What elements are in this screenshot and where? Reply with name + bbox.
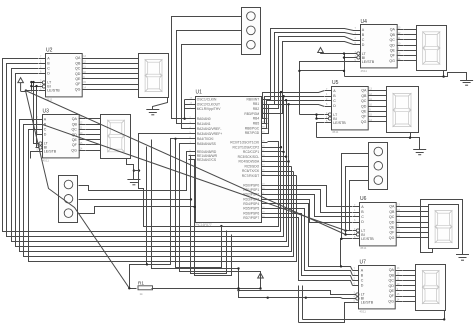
microcontroller U1 PIC16F877 [189, 90, 268, 228]
junction [259, 287, 261, 289]
wire U3 QA to display [86, 118, 101, 120]
wire J1 pin1 to RA0 [172, 17, 242, 119]
svg-text:QE: QE [390, 49, 396, 53]
wire U2 QE to display [89, 78, 139, 80]
wire DS3 common pin [443, 71, 445, 77]
svg-text:QC: QC [72, 128, 78, 132]
wire U6 LE [341, 239, 353, 267]
wire U7 QA to display [403, 270, 416, 272]
wire bus line 3 RC3 / U2 C [12, 69, 287, 242]
svg-text:RD6/PSP6: RD6/PSP6 [243, 211, 259, 215]
junction [282, 95, 284, 97]
svg-text:QE: QE [75, 77, 81, 81]
junction [237, 289, 239, 291]
wire U5 QD to display [375, 106, 387, 108]
svg-text:QC: QC [75, 67, 81, 71]
svg-text:OSC2/CLKOUT: OSC2/CLKOUT [197, 102, 220, 106]
svg-text:D: D [362, 43, 365, 47]
svg-text:QD: QD [390, 43, 396, 47]
wire U2 QG to display [89, 89, 139, 91]
wire U5 QB to display [375, 95, 387, 97]
svg-text:RD4/PSP4: RD4/PSP4 [243, 202, 259, 206]
wire U4 LT net [321, 53, 354, 55]
junction [285, 99, 287, 101]
wire U5 LE [317, 123, 325, 138]
wire U2 LT to U3 LT [34, 83, 40, 144]
wire U3 QD to display [86, 134, 101, 136]
wire U6 QG to display [403, 237, 429, 239]
wire RD1 to U6 B [268, 190, 353, 213]
svg-text:QC: QC [389, 215, 395, 219]
svg-text:RA3/AN3/VREF+: RA3/AN3/VREF+ [197, 132, 222, 136]
wire RD6 to U7 C [268, 214, 353, 281]
wire mesh vertical b [152, 140, 239, 269]
svg-text:QB: QB [72, 122, 78, 126]
wire U2 LE [26, 90, 39, 92]
svg-text:QB: QB [75, 61, 81, 65]
wire RB0 to U4 A [262, 29, 361, 100]
ground below DS2 [127, 180, 140, 185]
wire diagonal to R1 node [26, 91, 130, 289]
wire U5 BI [317, 118, 325, 120]
wire J3 pin1 [342, 154, 369, 239]
wire RD3 to U6 D [268, 200, 353, 223]
wire U2 QA to display [89, 58, 139, 60]
decoder U6 4511 [353, 196, 403, 250]
svg-text:U3: U3 [43, 109, 50, 115]
wire R1 right [152, 288, 261, 290]
ground near DS3 [460, 81, 473, 86]
junction [194, 206, 196, 208]
svg-text:RC1/T1OSI/CCP2: RC1/T1OSI/CCP2 [232, 145, 259, 149]
svg-text:C: C [47, 67, 50, 71]
wire bus line 4 RC4 / U2 D [16, 74, 289, 247]
junction [267, 297, 269, 299]
svg-text:QF: QF [361, 115, 367, 119]
ground below DS1 [146, 110, 159, 115]
connector J1 [242, 8, 261, 55]
wire U4 QE to display [404, 50, 417, 52]
svg-text:QB: QB [389, 273, 395, 277]
wire U3 QC to display [86, 129, 101, 131]
wire bottom rail [303, 319, 445, 321]
svg-text:U6: U6 [360, 196, 367, 202]
junction at R1 left [128, 287, 130, 289]
svg-text:QD: QD [389, 220, 395, 224]
svg-text:QD: QD [361, 104, 367, 108]
svg-text:QG: QG [388, 299, 394, 303]
wire RD5 to U7 B [268, 209, 353, 276]
wire RB1 to U4 B [262, 33, 361, 105]
svg-text:QE: QE [389, 226, 395, 230]
ground near DS5 [456, 255, 469, 261]
wire bus to U5 C [287, 100, 325, 102]
wire mesh vertical a [146, 147, 148, 265]
wire U7 QB to display [403, 275, 416, 277]
wire mesh S0 [176, 139, 222, 268]
svg-text:RD0/PSP0: RD0/PSP0 [243, 183, 259, 187]
svg-text:RC7/RX/DT: RC7/RX/DT [242, 174, 259, 178]
wire U3 QF to display [86, 144, 101, 146]
wire U7 QC to display [403, 280, 416, 282]
svg-text:QE: QE [361, 110, 367, 114]
svg-text:QA: QA [75, 56, 81, 60]
wire U4 QB to display [404, 34, 417, 36]
svg-text:RC3/SCK/SCL: RC3/SCK/SCL [238, 155, 260, 159]
svg-text:QA: QA [72, 117, 78, 121]
wire U5 QC to display [375, 100, 387, 102]
svg-text:4511: 4511 [360, 310, 367, 314]
svg-text:RD7/PSP7: RD7/PSP7 [243, 216, 259, 220]
svg-text:QD: QD [389, 284, 395, 288]
7-segment display DS2 [101, 115, 131, 159]
wire U6 tie [345, 231, 347, 235]
wire bus line 5 RC5 / U3 A [20, 120, 292, 252]
svg-text:RB7/PGD: RB7/PGD [245, 131, 260, 135]
wire U7 QG to display [403, 301, 416, 303]
svg-text:LE/STB: LE/STB [333, 121, 346, 125]
wire U6 QD to display [403, 222, 429, 224]
svg-text:RB4: RB4 [253, 117, 260, 121]
svg-text:C: C [361, 215, 364, 219]
wire J3 pin2 [346, 167, 369, 231]
wire RD7 to U7 D [268, 218, 353, 286]
svg-text:D: D [47, 72, 50, 76]
svg-text:RD5/PSP5: RD5/PSP5 [243, 207, 259, 211]
ground below DS4 [413, 150, 426, 155]
svg-text:QA: QA [389, 268, 395, 272]
junction [282, 151, 284, 153]
svg-text:MCLR/Vpp/THV: MCLR/Vpp/THV [197, 107, 221, 111]
svg-text:RC6/TX/CK: RC6/TX/CK [242, 169, 260, 173]
wire U2 QF to display [89, 84, 139, 86]
svg-text:U5: U5 [332, 80, 339, 86]
wire U2 LT [32, 82, 43, 84]
wire RC4 stub join [268, 161, 289, 163]
wire U6 QE to display [403, 227, 429, 229]
wire G3 branch to RC0 [134, 142, 279, 227]
svg-text:U7: U7 [360, 260, 367, 266]
svg-text:QB: QB [390, 33, 396, 37]
wire U6 LT [346, 230, 353, 232]
wire RC7 stub join [268, 175, 297, 177]
svg-text:R1: R1 [138, 280, 144, 285]
junction [174, 138, 176, 140]
wire RC5 stub join [268, 166, 292, 168]
junction [280, 91, 282, 93]
junction [183, 118, 185, 120]
svg-text:QA: QA [390, 28, 396, 32]
svg-text:RB3/PGM: RB3/PGM [244, 112, 259, 116]
svg-text:QC: QC [361, 99, 367, 103]
svg-text:LE/STB: LE/STB [361, 237, 374, 241]
svg-text:LE/STB: LE/STB [362, 60, 375, 64]
svg-text:U2: U2 [46, 48, 53, 54]
power symbol VCC near R1 [258, 273, 264, 289]
svg-text:QB: QB [361, 94, 367, 98]
wire U2 BI to U3 BI [37, 87, 40, 148]
svg-text:QF: QF [72, 143, 78, 147]
power symbol VCC near U4 [318, 48, 324, 54]
svg-text:LE/STB: LE/STB [44, 150, 57, 154]
connector J3 [369, 143, 388, 190]
wire RB7 to bus row 3 [262, 105, 289, 134]
junction [443, 318, 445, 320]
wire DS5 to ground loop [421, 200, 463, 255]
junction [287, 160, 289, 162]
wire DS4 common pin [410, 133, 412, 138]
junction [305, 297, 307, 299]
svg-text:RA4/T0CKI: RA4/T0CKI [197, 137, 214, 141]
svg-text:D: D [361, 220, 364, 224]
wire U3 QE to display [86, 139, 101, 141]
svg-text:U1: U1 [196, 90, 203, 96]
wire mesh vertical v1 [298, 286, 300, 323]
wire diagonal VCC to U6 BI [26, 91, 346, 235]
svg-text:QG: QG [75, 87, 81, 91]
junction [146, 263, 148, 265]
junction [220, 225, 222, 227]
svg-text:RE2/AN7/CS: RE2/AN7/CS [197, 158, 217, 162]
wire mesh vertical v2 [302, 286, 304, 320]
junction [285, 156, 287, 158]
wire U7 QF to display [403, 296, 416, 298]
wire bus to U5 D [289, 105, 325, 107]
wire U6 QC to display [403, 216, 429, 218]
7-segment display DS1 [139, 54, 169, 98]
wire U4 BI across [300, 70, 345, 72]
svg-text:4511: 4511 [43, 159, 50, 163]
wire RD4 to U7 A [268, 204, 353, 271]
svg-text:RB1: RB1 [253, 102, 260, 106]
wire U6 QF to display [403, 232, 429, 234]
wire LT-BI tie [31, 83, 33, 92]
junction [287, 103, 289, 105]
svg-text:LE/STB: LE/STB [47, 89, 60, 93]
svg-text:RA0/AN0: RA0/AN0 [197, 117, 211, 121]
wire U3 QB to display [86, 124, 101, 126]
decoder U2 4511 [39, 48, 89, 102]
wire J1 pin2 to RA1 [177, 31, 242, 124]
wire J3 pin3 [350, 181, 369, 231]
wire RC6 stub join [268, 171, 294, 173]
svg-text:QA: QA [361, 89, 367, 93]
wire U2 BI [32, 86, 43, 88]
svg-text:QC: QC [390, 38, 396, 42]
junction [190, 198, 192, 200]
wire DS1 to ground [153, 98, 168, 110]
svg-text:4511: 4511 [332, 130, 339, 134]
connector J2 [59, 176, 78, 223]
wire U4 QA to display [404, 29, 417, 31]
svg-text:1k: 1k [140, 292, 144, 296]
wire RB6 to bus row 2 [262, 101, 287, 129]
svg-text:QE: QE [389, 289, 395, 293]
wire OSC2 stub link [185, 104, 189, 106]
svg-text:C: C [362, 38, 365, 42]
svg-text:RA5/AN4/SS: RA5/AN4/SS [197, 142, 217, 146]
wire bus to U5 B [284, 96, 325, 98]
svg-text:RC5/SDO: RC5/SDO [245, 164, 260, 168]
junction [30, 81, 32, 83]
decoder U3 4511 [36, 109, 86, 163]
svg-text:D: D [361, 284, 364, 288]
wire RC2 stub join [268, 151, 284, 153]
svg-text:QA: QA [389, 205, 395, 209]
wire bus to U5 A [281, 91, 325, 93]
wire MCLR stub link [185, 108, 189, 110]
svg-text:QD: QD [75, 72, 81, 76]
svg-text:D: D [333, 104, 336, 108]
wire RB2 to U4 C [262, 37, 361, 109]
svg-text:C: C [361, 279, 364, 283]
wire to ground G5 [317, 138, 420, 150]
decoder U4 4511 [354, 19, 404, 73]
wire U3 QG to display [86, 150, 101, 152]
junction [138, 169, 140, 171]
wire U6 QB to display [403, 211, 429, 213]
wire RA4 to R1 [130, 139, 189, 289]
svg-text:4511: 4511 [360, 246, 367, 250]
wire U7 LE [299, 303, 353, 323]
svg-text:QE: QE [72, 138, 78, 142]
wire RA3 to DS2 ground branch [139, 134, 189, 171]
wire DS3 to ground [345, 73, 467, 81]
wire U6 QA to display [403, 206, 429, 208]
wire U7 QE to display [403, 290, 416, 292]
svg-text:D: D [44, 133, 47, 137]
svg-text:RB0/INT: RB0/INT [247, 97, 260, 101]
svg-text:OSC1/CLKIN: OSC1/CLKIN [197, 97, 217, 101]
wire RA5 to VCC node [180, 144, 261, 289]
svg-text:RC0/T1OSO/T1CKI: RC0/T1OSO/T1CKI [230, 141, 259, 145]
wire U4 LE down to U5 LT [300, 62, 354, 115]
decoder U7 4511 [353, 260, 403, 314]
wire U2 QD to display [89, 73, 139, 75]
wire RD0 to U6 A [268, 186, 353, 207]
wire RC3 stub join [268, 156, 287, 158]
wire U5 QA to display [375, 90, 387, 92]
svg-text:RB5: RB5 [253, 122, 260, 126]
junction [280, 146, 282, 148]
wire U2 QB to display [89, 63, 139, 65]
wire U2 QC to display [89, 68, 139, 70]
svg-text:4511: 4511 [361, 69, 368, 73]
svg-text:QF: QF [75, 82, 81, 86]
wire U5 LT-BI tie [316, 115, 318, 119]
wire mesh S2 [195, 207, 232, 276]
7-segment display DS5 [429, 205, 459, 249]
power symbol VCC near U2 [18, 78, 24, 92]
wire U3 LE [31, 152, 36, 159]
svg-text:C: C [333, 99, 336, 103]
wire vertical to R1 node [238, 269, 240, 289]
wire U4 QC to display [404, 39, 417, 41]
wire U7 BI from R1 node [239, 289, 353, 299]
wire RB3 to U4 D [262, 42, 361, 114]
wire arrow base [21, 91, 26, 93]
svg-text:RA1/AN1: RA1/AN1 [197, 122, 211, 126]
7-segment display DS3 [417, 26, 447, 71]
wire J1 pin3 to RA2 [182, 45, 242, 129]
wire RD2 to U6 C [268, 195, 353, 217]
svg-text:LE/STB: LE/STB [361, 301, 374, 305]
wire RB5 to bus row 1 [262, 97, 284, 124]
wire MCLR OSC vertical [184, 100, 186, 119]
wire U5 QG to display [375, 121, 387, 123]
svg-text:QG: QG [389, 236, 395, 240]
svg-text:RC4/SDI/SDA: RC4/SDI/SDA [238, 160, 260, 164]
wire mesh S1 [191, 200, 227, 274]
wire bus line 7 RC7 / U3 C [29, 130, 297, 262]
svg-text:QC: QC [389, 279, 395, 283]
svg-text:C: C [44, 128, 47, 132]
wire RC1 stub join [268, 147, 281, 149]
junction [25, 89, 27, 91]
wire J2 pin3 to RE2 [79, 160, 195, 214]
wire U4 BI tie down [344, 54, 346, 77]
svg-text:RC2/CCP1: RC2/CCP1 [243, 150, 259, 154]
svg-text:RB6/PGC: RB6/PGC [245, 126, 260, 130]
wire U7 LT [239, 291, 353, 295]
wire U5 LT net [300, 114, 325, 116]
wire U6 BI [346, 234, 353, 236]
wire U7 QD to display [403, 285, 416, 287]
junction [133, 169, 135, 171]
7-segment display DS6 [416, 265, 446, 311]
junction [340, 265, 342, 267]
svg-text:QF: QF [389, 294, 395, 298]
wire bus line 6 RC6 / U3 B [24, 125, 294, 257]
wire DS6 common pin [444, 311, 446, 320]
wire U4 BI [345, 57, 354, 59]
wire bus line 1 RC1 / U2 A [3, 59, 281, 232]
svg-text:QG: QG [361, 120, 367, 124]
svg-text:QF: QF [390, 54, 396, 58]
svg-text:RB2: RB2 [253, 107, 260, 111]
7-segment display DS4 [387, 87, 419, 133]
svg-text:QF: QF [389, 231, 395, 235]
wire J2 pin2 to RE1 [79, 156, 191, 200]
svg-text:RA2/AN2/VREF-: RA2/AN2/VREF- [197, 127, 222, 131]
wire U5 QE to display [375, 111, 387, 113]
svg-text:QG: QG [389, 59, 395, 63]
resistor R1 [138, 280, 153, 296]
svg-text:QG: QG [71, 148, 77, 152]
wire U4 QF to display [404, 55, 417, 57]
wire bus line 2 RC2 / U2 B [7, 64, 284, 237]
wire U4 QD to display [404, 45, 417, 47]
decoder U5 4511 [325, 80, 375, 134]
wire RB4 to bus row 0 [262, 93, 281, 119]
wire U5 QF to display [375, 116, 387, 118]
wire U4 QG to display [404, 60, 417, 62]
wire diagonal to U6 LT [43, 125, 346, 231]
wire OSC1 stub link [185, 99, 189, 101]
svg-text:QB: QB [389, 210, 395, 214]
junction [30, 85, 32, 87]
wire DS2 to ground [127, 159, 134, 180]
wire J2 pin1 to RE0 [79, 152, 189, 191]
